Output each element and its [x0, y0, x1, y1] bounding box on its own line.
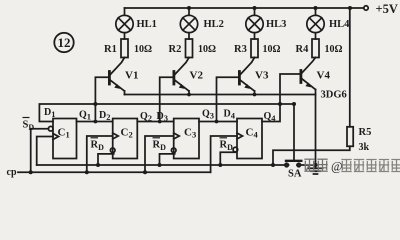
- transistor V3: [239, 72, 254, 92]
- svg-text:12: 12: [58, 35, 71, 50]
- transistor V4: [301, 71, 316, 90]
- svg-text:HL4: HL4: [329, 19, 350, 30]
- svg-text:SA: SA: [288, 169, 302, 180]
- junction dot Q3: [215, 120, 219, 124]
- wire R4-V4 collector: [302, 58, 316, 74]
- wire Q2-D3: [137, 121, 173, 123]
- wire clock feed C3: [145, 136, 174, 172]
- wire R_D bracket C2: [98, 153, 114, 165]
- junction dot feedback-Q4: [278, 102, 282, 106]
- svg-text:C2: C2: [121, 127, 133, 140]
- junction dot feedback right end: [292, 102, 296, 106]
- switch SA actuator bar: [286, 160, 301, 162]
- wire Q1-D2: [77, 121, 113, 123]
- svg-text:RD: RD: [220, 140, 234, 153]
- svg-text:+5V: +5V: [376, 2, 398, 16]
- wire feedback down to SA button: [293, 104, 295, 161]
- svg-text:C3: C3: [184, 127, 196, 140]
- junction dot rail-HL4: [314, 6, 318, 10]
- wire R1-V1 collector: [110, 58, 124, 75]
- svg-text:Q3: Q3: [202, 109, 214, 121]
- svg-text:HL2: HL2: [204, 19, 224, 30]
- svg-text:V1: V1: [125, 70, 138, 82]
- junction dot bracket C4: [218, 163, 222, 167]
- svg-text:R4: R4: [296, 44, 310, 55]
- junction dot S_D-cp line: [29, 170, 33, 174]
- lamp HL3: [246, 15, 263, 32]
- svg-text:3k: 3k: [359, 142, 370, 153]
- resistor R3: [251, 39, 258, 58]
- svg-text:V4: V4: [317, 70, 331, 82]
- svg-text:cp: cp: [7, 167, 17, 178]
- junction dot Q2: [158, 120, 162, 124]
- junction dot clock C2: [85, 170, 89, 174]
- wire HL2-R2: [188, 33, 190, 39]
- watermark: [304, 159, 400, 173]
- emitter bus wire: [125, 94, 316, 96]
- svg-text:R3: R3: [234, 44, 247, 55]
- lamp HL2: [180, 15, 197, 32]
- svg-text:V2: V2: [190, 70, 204, 82]
- wire Q3-D4: [199, 121, 237, 123]
- wire riser HL4: [315, 8, 317, 15]
- wire HL3-R3: [254, 33, 256, 39]
- svg-text:D1: D1: [44, 107, 55, 119]
- svg-text:10Ω: 10Ω: [263, 44, 281, 55]
- resistor R5: [347, 127, 353, 147]
- flip-flop C4: [237, 119, 262, 159]
- svg-text:D3: D3: [157, 111, 168, 123]
- svg-text:SD: SD: [23, 120, 35, 133]
- top power rail: [125, 7, 364, 9]
- junction dot R5 wire: [271, 163, 275, 167]
- wire riser HL3: [254, 8, 256, 15]
- flip-flop C3: [174, 119, 199, 159]
- wire Q1 to V1 base: [95, 77, 109, 121]
- junction dot bracket C3: [158, 163, 162, 167]
- clock triangle C3: [174, 133, 180, 139]
- wire R_D bracket C3: [160, 153, 175, 165]
- svg-text:Q1: Q1: [79, 110, 91, 122]
- junction dot bracket C2: [96, 163, 100, 167]
- resistor R4: [312, 39, 319, 58]
- svg-text:C1: C1: [58, 127, 70, 140]
- wire HL1-R1: [124, 33, 126, 39]
- wire clock feed C2: [87, 136, 113, 172]
- svg-text:10Ω: 10Ω: [198, 44, 216, 55]
- wire V2 emitter down: [188, 91, 190, 95]
- resistor R1: [121, 39, 128, 58]
- wire clock feed C1: [37, 137, 53, 166]
- wire S_D feed: [31, 129, 49, 173]
- wire rail to R5: [349, 8, 351, 127]
- clock triangle C4: [237, 133, 243, 139]
- wire Q3 to V3 base: [217, 77, 240, 121]
- svg-text:D4: D4: [224, 109, 236, 121]
- wire HL4-R4: [315, 33, 317, 39]
- reset bus line A: [37, 164, 289, 166]
- svg-text:D2: D2: [99, 110, 110, 122]
- resistor R2: [186, 39, 193, 58]
- transistor V2: [174, 72, 189, 92]
- junction dot rail-R5: [348, 6, 352, 10]
- feedback wire to D1: [39, 104, 294, 122]
- wire Q4 to V4 base: [262, 74, 301, 122]
- +5V terminal: [364, 6, 368, 10]
- junction dot ground: [314, 163, 318, 167]
- junction dot Q1: [94, 120, 98, 124]
- lamp HL4: [307, 15, 324, 32]
- transistor V1: [109, 72, 124, 92]
- wire V3 emitter down: [254, 91, 256, 95]
- svg-text:R2: R2: [169, 44, 182, 55]
- cp line B: [18, 171, 211, 173]
- svg-text:C4: C4: [246, 127, 259, 140]
- svg-text:HL1: HL1: [137, 19, 157, 30]
- wire V4 emitter down to ground line: [315, 90, 317, 166]
- junction dot rail-HL2: [187, 6, 191, 10]
- wire riser HL2: [188, 8, 190, 15]
- wire R5 to SA line: [273, 146, 350, 165]
- flip-flop C2: [113, 119, 138, 159]
- clock triangle C1: [53, 134, 59, 140]
- flip-flop C1: [53, 119, 77, 159]
- wire riser HL1: [124, 8, 126, 15]
- svg-text:3DG6: 3DG6: [321, 90, 347, 101]
- svg-text:R5: R5: [359, 127, 372, 138]
- junction dot emitter V3: [253, 93, 257, 97]
- junction dot feedback-Q1: [93, 102, 97, 106]
- svg-text:RD: RD: [153, 140, 167, 153]
- S_D bubble C1: [48, 126, 53, 131]
- wire R_D bracket C4: [220, 152, 235, 165]
- R_D bubble C4: [233, 147, 238, 152]
- wire Q2 to V2 base: [160, 77, 174, 121]
- junction dot rail-HL3: [253, 6, 257, 10]
- clock triangle C2: [113, 133, 119, 139]
- wire V1 emitter down: [124, 91, 126, 95]
- R_D bubble C3: [171, 148, 176, 153]
- svg-text:R1: R1: [104, 44, 117, 55]
- svg-text:HL3: HL3: [266, 19, 286, 30]
- svg-text:10Ω: 10Ω: [325, 44, 343, 55]
- lamp HL1: [116, 15, 133, 32]
- junction dot clock C3: [143, 170, 147, 174]
- reset bus line A after SA: [297, 164, 316, 166]
- figure number circle 12: [54, 33, 73, 52]
- svg-text:V3: V3: [255, 70, 269, 82]
- ground: [309, 165, 323, 174]
- R_D bubble C2: [110, 148, 115, 153]
- svg-text:@: @: [331, 160, 343, 174]
- wire R3-V3 collector: [240, 58, 254, 75]
- switch SA contact right: [297, 163, 300, 166]
- svg-text:10Ω: 10Ω: [134, 44, 152, 55]
- svg-text:Q4: Q4: [264, 111, 277, 123]
- wire R2-V2 collector: [175, 58, 189, 75]
- svg-text:RD: RD: [91, 140, 105, 153]
- wire clock feed C4: [211, 136, 237, 172]
- svg-text:Q2: Q2: [140, 111, 152, 123]
- switch SA contact left: [285, 163, 288, 166]
- junction dot emitter V2: [187, 93, 191, 97]
